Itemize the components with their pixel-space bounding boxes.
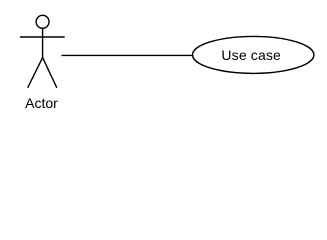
svg-text:Use case: Use case	[221, 47, 281, 63]
actor arms	[21, 36, 65, 38]
svg-text:Actor: Actor	[25, 95, 58, 111]
wire association line	[62, 54, 194, 56]
actor body	[42, 28, 44, 58]
actor left leg	[28, 58, 43, 88]
actor head	[36, 15, 49, 28]
use case ellipse	[193, 36, 314, 73]
actor right leg	[43, 58, 57, 88]
actor Actor	[21, 15, 65, 87]
